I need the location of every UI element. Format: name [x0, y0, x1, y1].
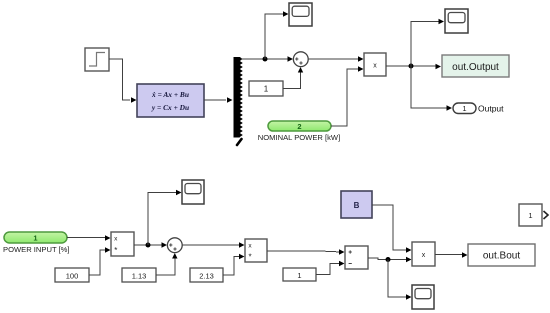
svg-text:Output: Output	[478, 104, 504, 114]
svg-text:POWER INPUT [%]: POWER INPUT [%]	[3, 245, 70, 254]
step source block	[85, 48, 109, 71]
svg-text:y = Cx + Du: y = Cx + Du	[151, 103, 189, 112]
constant 1.13	[122, 268, 156, 282]
junction node	[386, 257, 391, 262]
constant 100	[55, 268, 89, 282]
port pill 2 NOMINAL POWER	[268, 121, 331, 131]
label POWER INPUT [%]	[3, 245, 70, 254]
svg-text:out.Bout: out.Bout	[483, 251, 520, 262]
junction node	[409, 64, 414, 69]
wire state-space to demux	[204, 97, 233, 102]
wire junction up to scope3	[148, 190, 182, 245]
wire junction down to scope4	[388, 260, 412, 300]
svg-text:*: *	[114, 246, 117, 255]
wire product P3 to out.Bout	[435, 252, 468, 257]
constant 1 (bottom)	[283, 268, 316, 281]
constant B	[341, 191, 372, 218]
product P3	[412, 242, 435, 266]
svg-text:*: *	[248, 253, 251, 262]
wire constant 1 to sum S3	[316, 261, 345, 275]
label Output	[478, 104, 504, 114]
junction node	[146, 243, 151, 248]
wire step to state-space	[109, 59, 137, 103]
demux bar	[234, 57, 243, 145]
product P1	[364, 53, 386, 76]
svg-text:100: 100	[66, 272, 79, 281]
wire constant 1 to sum S1	[283, 67, 303, 89]
wire constant 100 to divide D1	[89, 247, 111, 275]
wire constant 1.13 to sum S2	[156, 253, 178, 275]
product P2	[245, 239, 267, 262]
wire pill1 to divide D1	[67, 235, 111, 240]
svg-text:1: 1	[297, 271, 301, 280]
junction node	[263, 57, 268, 62]
wire divide D1 to sum S2	[134, 242, 167, 247]
svg-text:B: B	[354, 201, 360, 210]
sum S2	[167, 238, 182, 253]
constant 1 (top)	[249, 81, 283, 96]
scope1	[289, 3, 312, 26]
svg-text:1: 1	[33, 234, 37, 243]
scope3	[182, 180, 204, 204]
wire product P2 to sum S3	[267, 249, 345, 254]
svg-text:1: 1	[462, 104, 466, 113]
constant 2.13	[190, 268, 223, 282]
svg-text:2.13: 2.13	[199, 272, 214, 281]
state-space block U1	[137, 84, 204, 117]
svg-text:1.13: 1.13	[132, 272, 147, 281]
svg-text:x: x	[373, 63, 377, 70]
svg-text:1: 1	[264, 85, 269, 94]
wire constant 2.13 to product P2	[223, 254, 245, 275]
wire sum S1 to product P1	[308, 56, 363, 61]
wire junction down to Output port	[411, 66, 452, 111]
inport 1 (top right)	[519, 204, 548, 226]
svg-text:out.Output: out.Output	[452, 62, 499, 73]
port pill 1 POWER INPUT	[4, 232, 67, 243]
svg-text:x: x	[422, 252, 426, 259]
svg-text:NOMINAL POWER [kW]: NOMINAL POWER [kW]	[258, 133, 340, 142]
divide D1	[111, 232, 134, 256]
svg-text:ẋ = Ax + Bu: ẋ = Ax + Bu	[151, 90, 189, 99]
wire product P1 to out.Output	[386, 64, 441, 69]
svg-text:2: 2	[297, 122, 301, 131]
label NOMINAL POWER [kW]	[258, 133, 340, 142]
svg-text:1: 1	[528, 211, 532, 220]
out.Bout To-Workspace block	[468, 244, 535, 266]
wire sum S2 to product P2	[182, 242, 244, 247]
wire pill2 to product P1	[331, 66, 364, 126]
wire sum S3 to product P3	[368, 257, 412, 262]
wire junction up to scope1	[265, 11, 289, 59]
out.Output To-Workspace block	[442, 55, 509, 77]
outport oval 1	[453, 103, 476, 114]
wire B to product P3	[372, 205, 412, 253]
wire junction up to scope2	[411, 19, 444, 66]
wire demux to sum junction	[241, 56, 293, 61]
scope2	[445, 9, 468, 33]
sum S3 rectangular	[345, 246, 368, 269]
scope4	[412, 285, 434, 309]
sum S1	[293, 52, 308, 67]
